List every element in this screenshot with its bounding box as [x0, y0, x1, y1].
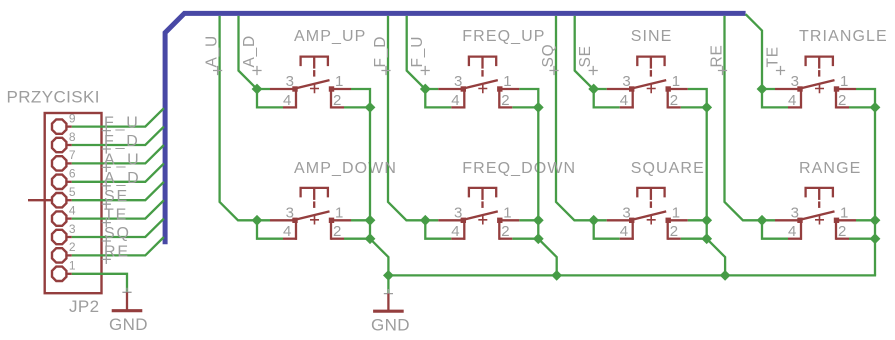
ground GND (left): [122, 288, 131, 297]
connector pin 4: [52, 211, 66, 225]
wire net A_U from bus to button: [220, 16, 257, 220]
svg-text:4: 4: [451, 92, 459, 109]
svg-text:1: 1: [672, 205, 680, 222]
connector pin 7: [52, 156, 66, 170]
svg-text:F_U: F_U: [409, 36, 426, 68]
bus (blue) from JP2 area up and across the top: [165, 13, 746, 244]
wire net A_U from JP2 pin 7 to bus: [72, 145, 164, 163]
svg-text:SE: SE: [577, 45, 594, 67]
svg-text:3: 3: [622, 73, 630, 90]
connector pin 3: [52, 230, 66, 244]
svg-text:JP2: JP2: [69, 297, 100, 316]
svg-text:FREQ_UP: FREQ_UP: [462, 28, 545, 45]
svg-text:SQ: SQ: [104, 225, 131, 242]
connector JP2 body: [45, 113, 102, 293]
svg-text:1: 1: [840, 205, 848, 222]
svg-text:SE: SE: [104, 188, 129, 205]
wire net RE from bus to button: [725, 16, 763, 220]
svg-text:A_U: A_U: [204, 35, 221, 68]
junction on ground rail x=388.4: [383, 270, 394, 281]
wire column 4 down to ground rail (straight): [874, 239, 876, 276]
svg-text:3: 3: [454, 205, 462, 222]
svg-text:AMP_UP: AMP_UP: [294, 28, 366, 45]
wire net SQ from JP2 pin 3 to bus: [72, 219, 164, 237]
svg-text:GND: GND: [371, 316, 410, 335]
svg-text:F_D: F_D: [104, 133, 140, 150]
svg-text:SINE: SINE: [631, 28, 673, 45]
connector pin 9: [52, 119, 66, 133]
pin 5 index mark: [28, 199, 52, 201]
svg-text:2: 2: [838, 92, 846, 109]
svg-text:TE: TE: [764, 46, 781, 67]
svg-text:5: 5: [69, 185, 76, 199]
wire column 2 down to ground rail: [538, 239, 556, 276]
svg-text:4: 4: [451, 223, 459, 240]
svg-text:2: 2: [670, 92, 678, 109]
svg-text:4: 4: [620, 223, 628, 240]
pushbutton S7 SQUARE : symbol body: [607, 188, 688, 240]
pushbutton S4 TRIANGLE : wiring (nets at pins 3/4 and 1/2): [757, 84, 881, 113]
svg-text:3: 3: [454, 73, 462, 90]
svg-text:2: 2: [501, 223, 509, 240]
svg-text:4: 4: [788, 92, 796, 109]
pushbutton S3 SINE : wiring (nets at pins 3/4 and 1/2): [588, 84, 712, 113]
svg-text:1: 1: [335, 205, 343, 222]
svg-text:PRZYCISKI: PRZYCISKI: [7, 88, 100, 107]
wire net A_D from bus to button: [239, 16, 258, 89]
wire ground rail to GND symbol: [387, 275, 389, 293]
svg-text:4: 4: [283, 92, 291, 109]
svg-text:RE: RE: [709, 44, 726, 67]
wire net A_D from JP2 pin 6 to bus: [72, 163, 164, 181]
pushbutton S8 pin numbers: [788, 205, 848, 241]
svg-text:9: 9: [69, 111, 76, 125]
svg-text:2: 2: [333, 223, 341, 240]
wire net SE from JP2 pin 5 to bus: [72, 182, 164, 200]
svg-text:TRIANGLE: TRIANGLE: [799, 28, 888, 45]
pushbutton S2 FREQ_UP : wiring (nets at pins 3/4 and 1/2): [420, 84, 544, 113]
pushbutton S3 SINE : symbol body: [607, 57, 688, 109]
pushbutton S1 pin numbers: [283, 73, 343, 109]
pushbutton S8 RANGE : symbol body: [775, 188, 856, 240]
svg-text:4: 4: [620, 92, 628, 109]
wire net F_D from JP2 pin 8 to bus: [72, 127, 164, 145]
junction on ground rail x=725.1: [720, 270, 731, 281]
pushbutton S4 pin numbers: [788, 73, 848, 109]
svg-text:2: 2: [333, 92, 341, 109]
wire ground rail (horizontal): [388, 274, 876, 276]
svg-text:A_U: A_U: [104, 151, 141, 168]
svg-text:3: 3: [622, 205, 630, 222]
svg-text:3: 3: [69, 222, 76, 236]
pushbutton S1 AMP_UP : symbol body: [270, 57, 351, 109]
pushbutton S2 FREQ_UP : symbol body: [438, 57, 519, 109]
pushbutton S7 SQUARE : wiring (nets at pins 3/4 and 1/2): [588, 215, 712, 244]
svg-text:1: 1: [840, 73, 848, 90]
svg-text:SQ: SQ: [540, 44, 557, 68]
pushbutton S6 FREQ_DOWN : symbol body: [438, 188, 519, 240]
wire column 1 right-side vertical (row1 to row2): [369, 107, 371, 220]
wire from JP2 pin 1 to GND: [72, 274, 127, 293]
svg-text:RE: RE: [104, 243, 130, 260]
svg-text:2: 2: [838, 223, 846, 240]
pushbutton S4 TRIANGLE : symbol body: [775, 57, 856, 109]
pushbutton S5 AMP_DOWN : wiring (nets at pins 3/4 and 1/2): [252, 215, 376, 244]
wire column 3 right-side vertical (row1 to row2): [706, 107, 708, 220]
svg-text:7: 7: [69, 148, 76, 162]
pushbutton S2 pin numbers: [451, 73, 511, 109]
wire net TE from JP2 pin 4 to bus: [72, 200, 164, 218]
svg-text:3: 3: [791, 205, 799, 222]
pushbutton S3 pin numbers: [620, 73, 680, 109]
svg-text:1: 1: [335, 73, 343, 90]
svg-text:1: 1: [672, 73, 680, 90]
wire net F_U from bus to button: [407, 16, 426, 89]
pushbutton S1 AMP_UP : wiring (nets at pins 3/4 and 1/2): [252, 84, 376, 113]
junction on ground rail x=556.7: [551, 270, 562, 281]
wire net SQ from bus to button: [556, 16, 594, 220]
svg-text:RANGE: RANGE: [799, 160, 861, 177]
wire column 2 right-side vertical (row1 to row2): [537, 107, 539, 220]
pushbutton S5 pin numbers: [283, 205, 343, 241]
svg-text:F_D: F_D: [372, 36, 389, 68]
pushbutton S8 RANGE : wiring (nets at pins 3/4 and 1/2): [757, 215, 881, 244]
pushbutton S6 FREQ_DOWN : wiring (nets at pins 3/4 and 1/2): [420, 215, 544, 244]
svg-text:A_D: A_D: [104, 170, 141, 187]
pushbutton S6 pin numbers: [451, 205, 511, 241]
svg-text:2: 2: [670, 223, 678, 240]
svg-text:1: 1: [69, 259, 76, 273]
svg-text:A_D: A_D: [241, 35, 258, 68]
svg-text:6: 6: [69, 167, 76, 181]
svg-text:8: 8: [69, 130, 76, 144]
svg-text:4: 4: [283, 223, 291, 240]
svg-text:2: 2: [69, 240, 76, 254]
wire net F_U from JP2 pin 9 to bus: [72, 108, 164, 126]
wire column 1 down to ground rail: [370, 239, 388, 276]
svg-text:2: 2: [501, 92, 509, 109]
wire column 4 right-side vertical (row1 to row2): [874, 107, 876, 220]
pushbutton S5 AMP_DOWN : symbol body: [270, 188, 351, 240]
connector pin 6: [52, 175, 66, 189]
svg-text:AMP_DOWN: AMP_DOWN: [294, 160, 397, 177]
svg-text:4: 4: [788, 223, 796, 240]
connector pin 2: [52, 248, 66, 262]
svg-text:1: 1: [503, 205, 511, 222]
svg-text:TE: TE: [104, 207, 128, 224]
svg-text:GND: GND: [109, 315, 148, 334]
wire net F_D from bus to button: [388, 16, 425, 220]
connector pin 5: [52, 193, 66, 207]
svg-text:FREQ_DOWN: FREQ_DOWN: [462, 160, 576, 177]
svg-text:3: 3: [791, 73, 799, 90]
ground GND (center): [384, 289, 393, 298]
connector pin 8: [52, 138, 66, 152]
svg-text:3: 3: [286, 205, 294, 222]
connector pin 1: [52, 267, 66, 281]
wire net TE from bus to button: [746, 14, 762, 89]
wire net SE from bus to button: [575, 16, 594, 90]
svg-text:F_U: F_U: [104, 115, 140, 132]
svg-text:3: 3: [286, 73, 294, 90]
svg-text:SQUARE: SQUARE: [631, 160, 705, 177]
wire net RE from JP2 pin 2 to bus: [72, 237, 164, 255]
svg-text:1: 1: [503, 73, 511, 90]
svg-text:4: 4: [69, 203, 76, 217]
wire column 3 down to ground rail: [707, 239, 725, 276]
pushbutton S7 pin numbers: [620, 205, 680, 241]
